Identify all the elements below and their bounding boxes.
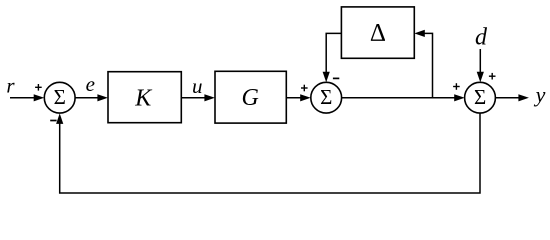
svg-text:u: u [192,74,203,98]
wire K to block G [181,94,215,101]
svg-text:Σ: Σ [474,85,486,109]
plus sign at S1 left input [35,84,42,91]
svg-text:Σ: Σ [54,85,66,109]
feedback wire from S3 bottom around to S1 bottom [56,113,480,193]
summing junction S2 [311,82,342,113]
plus sign at S2 left input [301,85,308,92]
wire tap up into Delta input (right side) [414,30,432,98]
summing junction S1 [44,82,75,113]
svg-text:y: y [534,82,546,107]
plus sign at S3 left input [453,83,460,90]
wire d down into S3 top [477,49,484,82]
wire S1 to block K [75,94,108,101]
plus sign at S3 top input [489,73,496,80]
svg-text:Σ: Σ [320,85,332,109]
svg-text:r: r [6,73,15,97]
wire S2 to summing junction S3 [342,94,465,101]
wire S3 to output y [495,94,529,101]
svg-text:K: K [134,85,153,111]
block K (controller) [108,72,181,123]
minus sign at S1 bottom input [50,120,56,122]
block Delta (uncertainty) [341,7,414,58]
svg-text:Δ: Δ [370,19,386,46]
minus sign at S2 top input [333,77,339,79]
wire r to summing junction S1 [10,94,44,101]
block G (plant) [215,71,286,123]
wire G to summing junction S2 [286,94,310,101]
wire Delta output down into S2 top [323,33,342,82]
svg-text:e: e [86,72,95,96]
svg-text:d: d [475,24,488,50]
summing junction S3 [465,82,496,113]
svg-text:G: G [242,85,259,111]
